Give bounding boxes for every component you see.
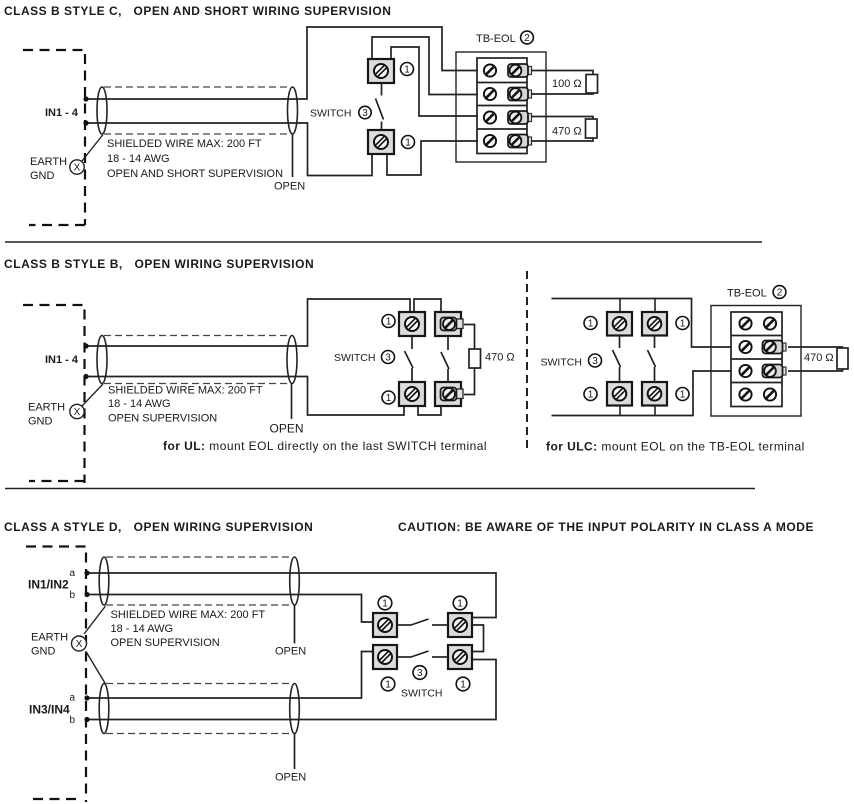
svg-text:CAUTION: BE AWARE OF THE INPUT: CAUTION: BE AWARE OF THE INPUT POLARITY …	[398, 520, 814, 534]
svg-text:SWITCH: SWITCH	[310, 108, 351, 120]
svg-text:1: 1	[588, 390, 594, 401]
svg-text:IN1 - 4: IN1 - 4	[45, 354, 79, 366]
svg-text:3: 3	[592, 356, 598, 367]
svg-text:GND: GND	[31, 646, 56, 658]
svg-text:OPEN AND SHORT SUPERVISION: OPEN AND SHORT SUPERVISION	[107, 168, 283, 180]
svg-text:OPEN: OPEN	[275, 646, 306, 658]
svg-text:IN1 - 4: IN1 - 4	[45, 107, 79, 119]
svg-text:OPEN: OPEN	[270, 422, 304, 436]
svg-text:X: X	[74, 163, 81, 174]
svg-text:SHIELDED WIRE MAX: 200 FT: SHIELDED WIRE MAX: 200 FT	[107, 138, 262, 150]
svg-text:b: b	[69, 590, 75, 601]
svg-text:1: 1	[385, 680, 391, 691]
svg-text:SHIELDED WIRE MAX: 200 FT: SHIELDED WIRE MAX: 200 FT	[108, 385, 263, 397]
svg-text:1: 1	[460, 680, 466, 691]
svg-text:1: 1	[386, 317, 392, 328]
svg-text:EARTH: EARTH	[30, 156, 67, 168]
svg-text:OPEN: OPEN	[274, 181, 305, 193]
svg-text:OPEN SUPERVISION: OPEN SUPERVISION	[108, 413, 217, 425]
svg-text:3: 3	[362, 108, 368, 119]
svg-text:b: b	[69, 715, 75, 726]
svg-text:SWITCH: SWITCH	[401, 688, 442, 700]
svg-text:18 - 14 AWG: 18 - 14 AWG	[108, 398, 171, 410]
svg-text:X: X	[74, 407, 81, 418]
svg-text:CLASS B STYLE C, OPEN AND SH: CLASS B STYLE C, OPEN AND SHORT WIRING S…	[4, 4, 391, 18]
svg-text:for UL: mount EOL directly on: for UL: mount EOL directly on the last S…	[163, 439, 487, 453]
svg-text:18 - 14 AWG: 18 - 14 AWG	[107, 153, 170, 165]
svg-text:2: 2	[524, 33, 530, 44]
svg-text:1: 1	[404, 65, 410, 76]
svg-text:1: 1	[680, 390, 686, 401]
svg-text:470 Ω: 470 Ω	[804, 352, 834, 364]
svg-text:TB-EOL: TB-EOL	[727, 288, 767, 300]
svg-text:GND: GND	[30, 170, 55, 182]
svg-text:1: 1	[382, 599, 388, 610]
svg-text:OPEN: OPEN	[275, 772, 306, 784]
svg-text:SWITCH: SWITCH	[541, 357, 582, 369]
svg-text:GND: GND	[28, 416, 53, 428]
svg-text:IN3/IN4: IN3/IN4	[29, 703, 70, 717]
svg-text:1: 1	[588, 319, 594, 330]
svg-text:3: 3	[417, 668, 423, 679]
svg-text:1: 1	[386, 393, 392, 404]
svg-text:470 Ω: 470 Ω	[485, 352, 515, 364]
svg-text:CLASS B STYLE B, OPEN WIRING: CLASS B STYLE B, OPEN WIRING SUPERVISION	[4, 257, 314, 271]
svg-text:3: 3	[385, 353, 391, 364]
svg-text:1: 1	[405, 138, 411, 149]
svg-text:1: 1	[457, 599, 463, 610]
svg-text:SHIELDED WIRE MAX: 200 FT: SHIELDED WIRE MAX: 200 FT	[111, 609, 266, 621]
svg-text:a: a	[69, 693, 75, 704]
svg-text:100 Ω: 100 Ω	[552, 78, 582, 90]
svg-text:18 - 14 AWG: 18 - 14 AWG	[111, 623, 174, 635]
svg-text:EARTH: EARTH	[28, 402, 65, 414]
svg-text:2: 2	[777, 288, 783, 299]
svg-text:TB-EOL: TB-EOL	[476, 33, 516, 45]
svg-text:EARTH: EARTH	[31, 632, 68, 644]
svg-text:a: a	[69, 568, 75, 579]
svg-text:CLASS A STYLE D, OPEN WIRING: CLASS A STYLE D, OPEN WIRING SUPERVISION	[4, 520, 313, 534]
svg-text:470 Ω: 470 Ω	[552, 126, 582, 138]
svg-text:IN1/IN2: IN1/IN2	[28, 578, 69, 592]
svg-text:for ULC: mount EOL on the TB-E: for ULC: mount EOL on the TB-EOL termina…	[546, 440, 805, 454]
svg-text:X: X	[76, 639, 83, 650]
svg-text:1: 1	[680, 319, 686, 330]
svg-text:OPEN SUPERVISION: OPEN SUPERVISION	[111, 637, 220, 649]
svg-text:SWITCH: SWITCH	[334, 352, 375, 364]
